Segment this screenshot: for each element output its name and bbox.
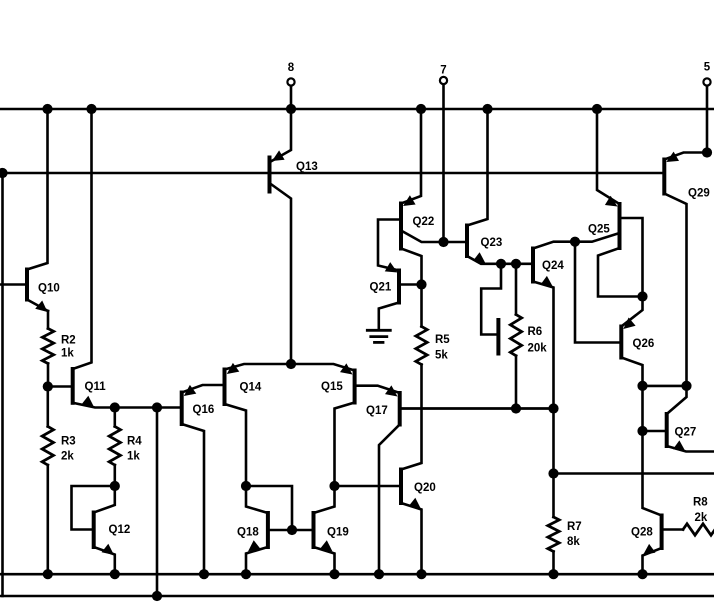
svg-text:R7: R7	[567, 521, 582, 533]
svg-text:Q15: Q15	[321, 381, 343, 393]
svg-text:Q18: Q18	[237, 527, 259, 539]
svg-text:2k: 2k	[61, 451, 74, 463]
svg-text:R6: R6	[528, 326, 543, 338]
svg-text:5: 5	[704, 62, 711, 74]
svg-text:8k: 8k	[567, 536, 580, 548]
svg-text:Q28: Q28	[631, 527, 653, 539]
svg-text:R5: R5	[435, 334, 450, 346]
svg-text:Q17: Q17	[366, 405, 388, 417]
svg-text:Q26: Q26	[633, 338, 655, 350]
svg-text:5k: 5k	[435, 350, 448, 362]
svg-text:20k: 20k	[528, 343, 548, 355]
svg-text:Q16: Q16	[193, 404, 215, 416]
svg-text:Q22: Q22	[413, 216, 435, 228]
svg-text:Q13: Q13	[296, 161, 318, 173]
svg-text:1k: 1k	[61, 348, 74, 360]
svg-text:Q25: Q25	[588, 224, 610, 236]
svg-text:R4: R4	[127, 436, 142, 448]
svg-text:8: 8	[288, 62, 295, 74]
svg-text:Q20: Q20	[414, 482, 436, 494]
svg-text:Q29: Q29	[688, 188, 710, 200]
svg-text:Q12: Q12	[109, 524, 131, 536]
svg-text:R8: R8	[693, 497, 708, 509]
svg-text:Q14: Q14	[240, 382, 262, 394]
svg-text:Q11: Q11	[85, 381, 107, 393]
svg-text:Q10: Q10	[38, 283, 60, 295]
svg-text:1k: 1k	[127, 451, 140, 463]
svg-text:R2: R2	[61, 335, 76, 347]
svg-text:Q19: Q19	[327, 527, 349, 539]
svg-text:Q24: Q24	[542, 260, 564, 272]
svg-text:Q21: Q21	[370, 282, 392, 294]
svg-text:2k: 2k	[695, 512, 708, 524]
svg-text:Q27: Q27	[675, 427, 697, 439]
svg-text:7: 7	[440, 65, 446, 77]
svg-text:Q23: Q23	[481, 237, 503, 249]
svg-text:R3: R3	[61, 436, 76, 448]
